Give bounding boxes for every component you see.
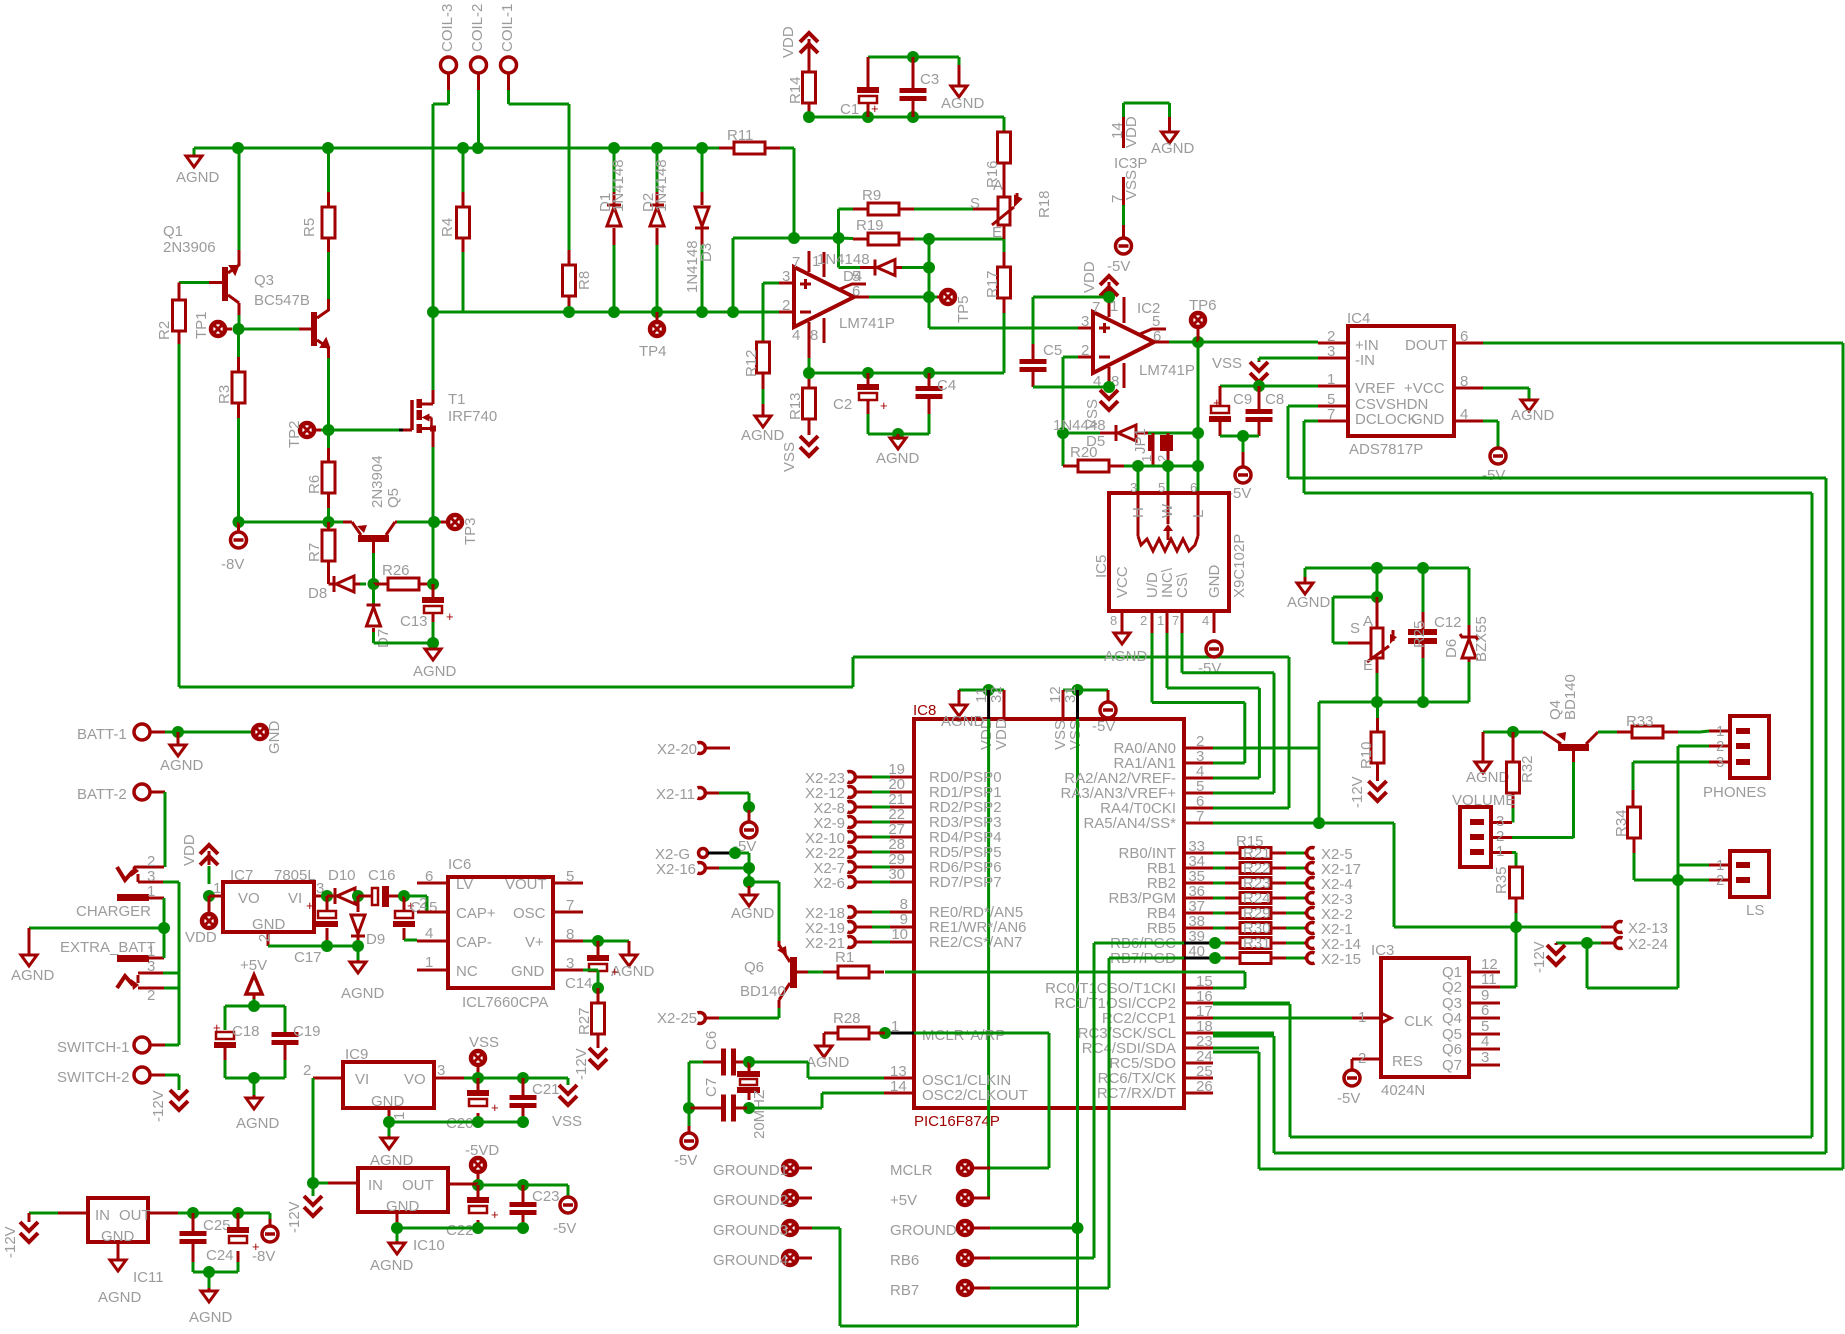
junction TP1 node bbox=[233, 323, 245, 335]
svg-text:VI: VI bbox=[355, 1071, 369, 1088]
junction S loop bbox=[1371, 591, 1383, 603]
junction +5V bottom bbox=[248, 1072, 260, 1084]
resistor R3 bbox=[232, 372, 245, 403]
pad SWITCH-1 bbox=[134, 1037, 150, 1053]
svg-text:TP1: TP1 bbox=[193, 311, 210, 339]
svg-text:C16: C16 bbox=[368, 867, 396, 884]
svg-text:31: 31 bbox=[1062, 686, 1079, 703]
svg-text:8: 8 bbox=[1110, 613, 1117, 628]
wire X2-25 to Q6 collector bbox=[778, 1008, 781, 1018]
svg-text:T1: T1 bbox=[448, 391, 466, 408]
junction y1228 x523 bbox=[517, 1222, 529, 1234]
pin IC8 7 RA5/AN4/SS* bbox=[1184, 822, 1213, 825]
svg-text:AGND: AGND bbox=[1151, 140, 1195, 157]
svg-text:6: 6 bbox=[1481, 1002, 1489, 1019]
wire OSC2 net bbox=[749, 1107, 822, 1110]
junction OUT x193 bbox=[187, 1207, 199, 1219]
svg-text:AGND: AGND bbox=[1466, 769, 1510, 786]
junction D10/C16 bbox=[352, 890, 364, 902]
pin IC9 3 VO bbox=[434, 1077, 464, 1080]
pin IC8 8 RE0/RD*/AN5 with pad bbox=[884, 911, 914, 914]
svg-text:LM741P: LM741P bbox=[839, 315, 895, 332]
svg-text:+: + bbox=[1213, 395, 1221, 410]
svg-text:C8: C8 bbox=[1265, 391, 1284, 408]
wire VSS riser inside box bbox=[1076, 719, 1079, 1326]
junction IC1 output/TP5 bbox=[923, 291, 935, 303]
ground AGND (bus) bbox=[186, 156, 202, 167]
junction rail x1423 bbox=[1417, 562, 1429, 574]
svg-text:VREF: VREF bbox=[1355, 380, 1395, 397]
svg-text:1: 1 bbox=[1327, 371, 1335, 388]
svg-text:R4: R4 bbox=[439, 218, 456, 237]
svg-text:6: 6 bbox=[425, 868, 433, 885]
svg-text:R7: R7 bbox=[306, 543, 323, 562]
svg-text:R11: R11 bbox=[727, 127, 753, 144]
wire IC5 H riser bbox=[1137, 471, 1140, 493]
pin IC3 5 Q5 bbox=[1469, 1033, 1500, 1036]
svg-text:R17: R17 bbox=[984, 270, 1001, 298]
resistor R12 bbox=[762, 341, 765, 344]
junction y1122 x478 bbox=[472, 1116, 484, 1128]
resistor R23 / pad X2-4 bbox=[1213, 882, 1225, 885]
ground AGND (C3) bbox=[958, 57, 961, 65]
pin IC8 9 RE1/WR*/AN6 with pad bbox=[884, 926, 914, 929]
pin IC10 OUT bbox=[448, 1183, 478, 1186]
wire C6/C7 left leg bbox=[688, 1062, 691, 1108]
svg-text:11: 11 bbox=[1481, 971, 1497, 988]
svg-text:AGND: AGND bbox=[941, 95, 985, 112]
supply -5V (IC3 RES) bbox=[1351, 1059, 1354, 1070]
svg-text:-8V: -8V bbox=[221, 556, 244, 573]
svg-text:RB7: RB7 bbox=[890, 1282, 919, 1299]
wire RA5 row bbox=[1213, 822, 1394, 825]
pad X2-24 bbox=[1587, 942, 1601, 945]
diode D7 bbox=[372, 584, 375, 605]
pin IC8 21 RD2/PSP2 with pad bbox=[884, 806, 914, 809]
junction BATT2/charger net bbox=[158, 922, 170, 934]
svg-text:8: 8 bbox=[1460, 373, 1468, 390]
svg-text:-5V: -5V bbox=[1228, 485, 1251, 502]
wire main top bus bbox=[194, 147, 719, 150]
junction LS node bbox=[1672, 874, 1684, 886]
wire feedback riser x733 bbox=[732, 238, 735, 312]
capacitor C23 bbox=[522, 1185, 525, 1202]
resistor R31 / pad X2-14 bbox=[1213, 942, 1225, 945]
pin IC8 20 RD1/PSP1 with pad bbox=[884, 791, 914, 794]
svg-text:AGND: AGND bbox=[741, 427, 785, 444]
junction Q5 base row x328 bbox=[323, 516, 335, 528]
svg-text:C2: C2 bbox=[833, 396, 852, 413]
pin IC8 37 RB4 bbox=[1184, 912, 1213, 915]
svg-text:VSS: VSS bbox=[1212, 355, 1242, 372]
junction -8V node bbox=[233, 516, 245, 528]
resistor R11 bbox=[734, 142, 765, 154]
svg-text:CS\: CS\ bbox=[1174, 572, 1191, 598]
svg-text:VI: VI bbox=[288, 890, 302, 907]
svg-text:C24: C24 bbox=[206, 1247, 234, 1264]
wire R4 to lower rail bbox=[462, 238, 465, 252]
transistor Q3 BC547B bbox=[311, 312, 317, 346]
supply -12V (SWITCH-2) bbox=[170, 1090, 188, 1099]
pin IC8 27 RD4/PSP4 with pad bbox=[884, 836, 914, 839]
svg-text:7: 7 bbox=[1172, 613, 1179, 628]
svg-text:1: 1 bbox=[213, 880, 221, 897]
wire RC1 to row16 bbox=[1213, 1002, 1290, 1005]
pad RB6 bbox=[958, 1251, 972, 1265]
svg-text:R32: R32 bbox=[1519, 755, 1536, 783]
ground AGND (charger) bbox=[28, 928, 31, 955]
svg-text:AGND: AGND bbox=[413, 663, 457, 680]
wire output feedback down bbox=[1197, 342, 1200, 433]
pad BATT-1 bbox=[134, 724, 150, 740]
supply -5V (X2-11) bbox=[748, 810, 751, 822]
pad COIL-1 bbox=[501, 57, 517, 73]
supply -12V (IC9) bbox=[312, 1183, 315, 1196]
svg-text:3: 3 bbox=[566, 955, 574, 972]
svg-text:C9: C9 bbox=[1233, 391, 1252, 408]
capacitor C14 bbox=[597, 941, 600, 955]
junction +5V rail bbox=[248, 1000, 260, 1012]
resistor R? / pad X2-15 bbox=[1213, 957, 1225, 960]
svg-text:RA5/AN4/SS*: RA5/AN4/SS* bbox=[1083, 815, 1176, 832]
svg-text:3: 3 bbox=[437, 1062, 445, 1079]
wire AGND rail y1122 bbox=[389, 1121, 523, 1124]
svg-text:VCC: VCC bbox=[1114, 566, 1131, 598]
resistor R21 / pad X2-5 bbox=[1213, 852, 1225, 855]
trimmer R18 bbox=[1003, 163, 1006, 197]
svg-text:+: + bbox=[880, 398, 888, 413]
svg-text:3: 3 bbox=[1481, 1049, 1489, 1066]
op-amp IC1 LM741P bbox=[794, 267, 854, 327]
wire TP2 node to T1 gate bbox=[329, 429, 400, 432]
svg-text:TP2: TP2 bbox=[286, 420, 303, 448]
testpoint TP6 bbox=[1197, 327, 1200, 342]
junction X2-11/-5V bbox=[743, 801, 755, 813]
pad GROUND4 bbox=[783, 1251, 797, 1265]
capacitor C24 bbox=[237, 1213, 240, 1227]
wire bias rail y373 bbox=[809, 372, 1004, 375]
pin IC4 5 CSV bbox=[1318, 405, 1348, 408]
svg-text:GND: GND bbox=[371, 1093, 405, 1110]
wire SWITCH-2 bbox=[150, 1074, 165, 1077]
wire trimmer E to rail bbox=[1376, 658, 1379, 673]
svg-text:MCLR*A/RP: MCLR*A/RP bbox=[922, 1027, 1005, 1044]
svg-text:ADS7817P: ADS7817P bbox=[1349, 441, 1423, 458]
svg-text:Q2: Q2 bbox=[1442, 979, 1462, 996]
junction IC9 GND bbox=[383, 1116, 395, 1128]
pin IC9 1 GND bbox=[388, 1108, 391, 1122]
supply -12V (R10) bbox=[1376, 763, 1379, 781]
resistor R10 bbox=[1376, 702, 1379, 718]
svg-text:E: E bbox=[992, 224, 1002, 241]
wire DCLOCK long net L1 bbox=[1304, 420, 1318, 423]
wire LS 2 bbox=[1678, 879, 1709, 882]
junction rail x569 bbox=[563, 306, 575, 318]
svg-text:AGND: AGND bbox=[341, 985, 385, 1002]
svg-text:C12: C12 bbox=[1434, 614, 1462, 631]
svg-text:Q7: Q7 bbox=[1442, 1057, 1462, 1074]
connector PHONES bbox=[1730, 716, 1769, 778]
junction rail x1168 bbox=[1162, 460, 1174, 472]
svg-text:LM741P: LM741P bbox=[1139, 362, 1195, 379]
svg-text:+: + bbox=[611, 964, 619, 979]
resistor R33 bbox=[1617, 731, 1632, 734]
svg-text:RES: RES bbox=[1392, 1053, 1423, 1070]
pin IC3 11 Q2 bbox=[1469, 986, 1500, 989]
svg-text:RB6: RB6 bbox=[890, 1252, 919, 1269]
junction crystal bottom bbox=[743, 1102, 755, 1114]
svg-text:2: 2 bbox=[1140, 613, 1147, 628]
svg-text:-12V: -12V bbox=[2, 1226, 19, 1258]
svg-text:TP6: TP6 bbox=[1189, 297, 1217, 314]
svg-text:3: 3 bbox=[1327, 343, 1335, 360]
ground AGND (IC8 VDD) bbox=[958, 690, 961, 705]
wire CSV long net L2 bbox=[1288, 405, 1318, 408]
wire R17 bottom to rail bbox=[1003, 298, 1006, 313]
junction rail D9 bbox=[352, 940, 364, 952]
wire S loop bbox=[1376, 568, 1379, 597]
pin IC4 8 +VCC bbox=[1454, 387, 1483, 390]
svg-text:-5V: -5V bbox=[1198, 660, 1221, 677]
capacitor C6 bbox=[689, 1061, 703, 1064]
svg-text:R28: R28 bbox=[833, 1010, 861, 1027]
svg-text:2: 2 bbox=[419, 895, 427, 912]
svg-text:DCLOCK: DCLOCK bbox=[1355, 411, 1418, 428]
junction C6/crystal top bbox=[743, 1056, 755, 1068]
svg-text:TP4: TP4 bbox=[639, 343, 667, 360]
svg-text:4024N: 4024N bbox=[1381, 1082, 1425, 1099]
svg-text:7: 7 bbox=[1092, 299, 1100, 316]
wire COIL-3 to T1 drain bbox=[447, 73, 450, 90]
junction VDD rail x809 bbox=[803, 111, 815, 123]
pin IC6 7 OSC bbox=[553, 911, 583, 914]
ground AGND (+5V caps) bbox=[253, 1078, 256, 1095]
svg-text:GND: GND bbox=[252, 916, 286, 933]
ground AGND (C24/C25) bbox=[208, 1272, 211, 1288]
svg-text:7: 7 bbox=[1327, 406, 1335, 423]
svg-text:CAP+: CAP+ bbox=[456, 905, 496, 922]
wire bus to R5 bbox=[327, 148, 330, 192]
svg-text:30: 30 bbox=[888, 866, 905, 883]
svg-text:4: 4 bbox=[425, 925, 433, 942]
wire inverting lower rail bbox=[433, 311, 779, 314]
junction -5V rail x478 bbox=[472, 1179, 484, 1191]
supply VSS (IC4) bbox=[1258, 361, 1261, 362]
junction C16/C15 bbox=[398, 890, 410, 902]
svg-text:AGND: AGND bbox=[806, 1054, 850, 1071]
svg-text:C21: C21 bbox=[532, 1081, 560, 1098]
resistor R13 bbox=[808, 342, 811, 358]
svg-text:AGND: AGND bbox=[236, 1115, 280, 1132]
wire trimmer bottom rail bbox=[1319, 701, 1469, 704]
wire C15 to IC6 pin4 bbox=[404, 939, 417, 942]
pin IC6 3 GND bbox=[553, 969, 583, 972]
svg-text:V+: V+ bbox=[525, 934, 544, 951]
wire rail to IC5 pins bbox=[1137, 466, 1140, 471]
pad COIL-2 bbox=[471, 57, 487, 73]
wire IC5 W riser bbox=[1167, 471, 1170, 493]
svg-text:20MHZ: 20MHZ bbox=[751, 1090, 768, 1139]
wire -5V rail bbox=[478, 1184, 523, 1187]
pad GROUND1 bbox=[783, 1161, 797, 1175]
svg-text:C6: C6 bbox=[703, 1031, 720, 1050]
wire DOUT long net L3 bbox=[1483, 342, 1843, 345]
svg-text:BD140: BD140 bbox=[1562, 674, 1579, 720]
junction rail x868 bbox=[862, 367, 874, 379]
svg-text:1N4448: 1N4448 bbox=[1053, 417, 1106, 434]
ground AGND (IC10) bbox=[396, 1228, 399, 1241]
wire AGND stub main bus left end bbox=[193, 148, 196, 156]
wire R3 to -8V node bbox=[237, 403, 240, 418]
wire PHONES 2 down bbox=[1678, 745, 1709, 748]
pin IC6 5 VOUT bbox=[553, 882, 583, 885]
svg-text:C18: C18 bbox=[232, 1023, 260, 1040]
wire -12V riser bbox=[312, 1078, 315, 1183]
pin IC6 8 V+ bbox=[553, 940, 583, 943]
svg-text:GROUND3: GROUND3 bbox=[713, 1222, 788, 1239]
svg-text:X2-24: X2-24 bbox=[1628, 936, 1668, 953]
svg-text:7: 7 bbox=[1196, 808, 1204, 825]
pin IC6 2 CAP+ bbox=[417, 911, 448, 914]
wire feedback row y238 bbox=[794, 237, 839, 240]
wire RB7 net bbox=[1109, 957, 1184, 960]
svg-text:4: 4 bbox=[1481, 1033, 1489, 1050]
capacitor C21 bbox=[522, 1078, 525, 1095]
wire IC1 -input bbox=[779, 311, 794, 314]
svg-text:Q6: Q6 bbox=[744, 959, 764, 976]
wire C8/C9 bottom rail bbox=[1220, 435, 1259, 438]
pin IC11 GND bbox=[117, 1242, 120, 1260]
wire IC1 output bbox=[854, 296, 869, 299]
svg-text:X2-15: X2-15 bbox=[1321, 951, 1361, 968]
junction -12V node bbox=[307, 1177, 319, 1189]
wire D4 branch bbox=[837, 238, 840, 268]
pin IC4 7 DCLOCK bbox=[1318, 420, 1348, 423]
svg-text:GND: GND bbox=[1411, 411, 1445, 428]
resistor R8 bbox=[563, 265, 576, 296]
pad MCLR bbox=[958, 1161, 972, 1175]
trimmer R24 bbox=[1376, 597, 1379, 628]
capacitor C13 bbox=[432, 584, 435, 597]
svg-text:R34: R34 bbox=[1613, 809, 1630, 837]
supply -5V (C8/C9) bbox=[1242, 436, 1245, 452]
wire D7/C13 bottom to AGND bbox=[432, 613, 435, 622]
wire RC4 to row23 bbox=[1213, 1047, 1259, 1050]
op-amp IC2 LM741P bbox=[1093, 312, 1154, 373]
junction VREF x1259 bbox=[1253, 380, 1265, 392]
svg-text:SWITCH-1: SWITCH-1 bbox=[57, 1039, 130, 1056]
svg-text:R25: R25 bbox=[1411, 620, 1428, 648]
wire VDD to IC2 pin 7 bbox=[1033, 296, 1109, 299]
junction C14 bottom bbox=[592, 982, 604, 994]
svg-text:IC10: IC10 bbox=[413, 1237, 445, 1254]
svg-text:C17: C17 bbox=[294, 949, 322, 966]
svg-text:-5V: -5V bbox=[1092, 718, 1115, 735]
supply VDD arrow (IC7) bbox=[200, 845, 218, 854]
junction R26/C13 bbox=[427, 578, 439, 590]
wire RB6 net bbox=[1094, 942, 1184, 945]
pin IC8 13 OSC1 bbox=[884, 1077, 914, 1080]
resistor R16 bbox=[1003, 117, 1006, 132]
resistor R19 bbox=[853, 238, 868, 241]
svg-text:D10: D10 bbox=[328, 867, 356, 884]
svg-text:-12V: -12V bbox=[1349, 776, 1366, 808]
resistor R4 bbox=[457, 207, 470, 238]
pin IC8 17 RC2/CCP1 bbox=[1184, 1017, 1213, 1020]
pins IC5 bottom bbox=[1121, 611, 1124, 633]
supply VDD arrow (IC2) bbox=[1100, 276, 1118, 285]
svg-text:-5V: -5V bbox=[674, 1152, 697, 1169]
svg-text:RD7/PSP7: RD7/PSP7 bbox=[929, 874, 1002, 891]
wire output to IC4 +IN bbox=[1198, 341, 1318, 344]
wire R34 bottom bbox=[1633, 838, 1636, 853]
wire riser x1394 to X2-13 node bbox=[1393, 823, 1396, 927]
svg-text:R8: R8 bbox=[576, 271, 593, 290]
ground AGND (BATT-1) bbox=[177, 732, 180, 745]
pin IC8 29 RD6/PSP6 with pad bbox=[884, 866, 914, 869]
svg-text:3: 3 bbox=[147, 958, 155, 975]
svg-text:-5V: -5V bbox=[1337, 1090, 1360, 1107]
pad GROUND bbox=[958, 1221, 972, 1235]
wire R20 right rail bbox=[1109, 465, 1124, 468]
wire Q5 row bbox=[239, 521, 344, 524]
supply VSS chevron bbox=[559, 1085, 577, 1094]
svg-text:C3: C3 bbox=[920, 71, 939, 88]
svg-text:OSC: OSC bbox=[513, 905, 546, 922]
resistor R7 bbox=[322, 530, 335, 561]
pin IC8 3 RA1/AN1 bbox=[1184, 762, 1213, 765]
junction rail x702 bbox=[696, 306, 708, 318]
svg-text:3: 3 bbox=[1081, 313, 1089, 330]
svg-text:C13: C13 bbox=[400, 613, 428, 630]
wire MCLR net bbox=[885, 1032, 914, 1035]
wire R2 bottom long rail to RA4 region bbox=[178, 331, 181, 344]
svg-text:+: + bbox=[252, 1239, 260, 1254]
pin IC8 14 OSC2 bbox=[884, 1092, 914, 1095]
wire R26 pins bbox=[374, 583, 389, 586]
wire Q1 emitter to bus bbox=[238, 148, 241, 250]
svg-text:R6: R6 bbox=[306, 475, 323, 494]
svg-text:X2-16: X2-16 bbox=[656, 861, 696, 878]
transistor Q4 BD140 bbox=[1558, 744, 1589, 751]
ground AGND (R28) bbox=[824, 1032, 838, 1035]
capacitor C22 bbox=[477, 1185, 480, 1197]
svg-text:H: H bbox=[1130, 507, 1147, 518]
svg-text:AGND: AGND bbox=[1511, 407, 1555, 424]
wire C16 to IC6 pin2 bbox=[404, 895, 427, 898]
junction V+/C14 bbox=[592, 935, 604, 947]
wire Q1 collector to TP1 node bbox=[238, 315, 241, 329]
svg-text:RE2/CS*/AN7: RE2/CS*/AN7 bbox=[929, 934, 1022, 951]
svg-text:LV: LV bbox=[456, 876, 473, 893]
wire GROUND3 loop bbox=[812, 1227, 840, 1230]
junction bus x238 bbox=[232, 142, 244, 154]
svg-text:VSS: VSS bbox=[781, 442, 798, 472]
power pins IC3P pin 7 VSS bbox=[1122, 177, 1125, 205]
svg-text:+: + bbox=[446, 609, 454, 624]
junction bus x657 bbox=[651, 142, 663, 154]
svg-text:R20: R20 bbox=[1070, 444, 1098, 461]
wire -12V to IC10 IN bbox=[313, 1182, 328, 1185]
svg-text:3: 3 bbox=[1130, 480, 1137, 495]
wire SWITCH-1 bbox=[150, 1044, 165, 1047]
wire RA0 row bbox=[1213, 747, 1319, 750]
svg-text:7: 7 bbox=[566, 897, 574, 914]
svg-text:IN: IN bbox=[368, 1177, 383, 1194]
pin IC3 4 Q6 bbox=[1469, 1048, 1500, 1051]
connector LS bbox=[1730, 851, 1769, 897]
svg-text:OUT: OUT bbox=[402, 1177, 434, 1194]
